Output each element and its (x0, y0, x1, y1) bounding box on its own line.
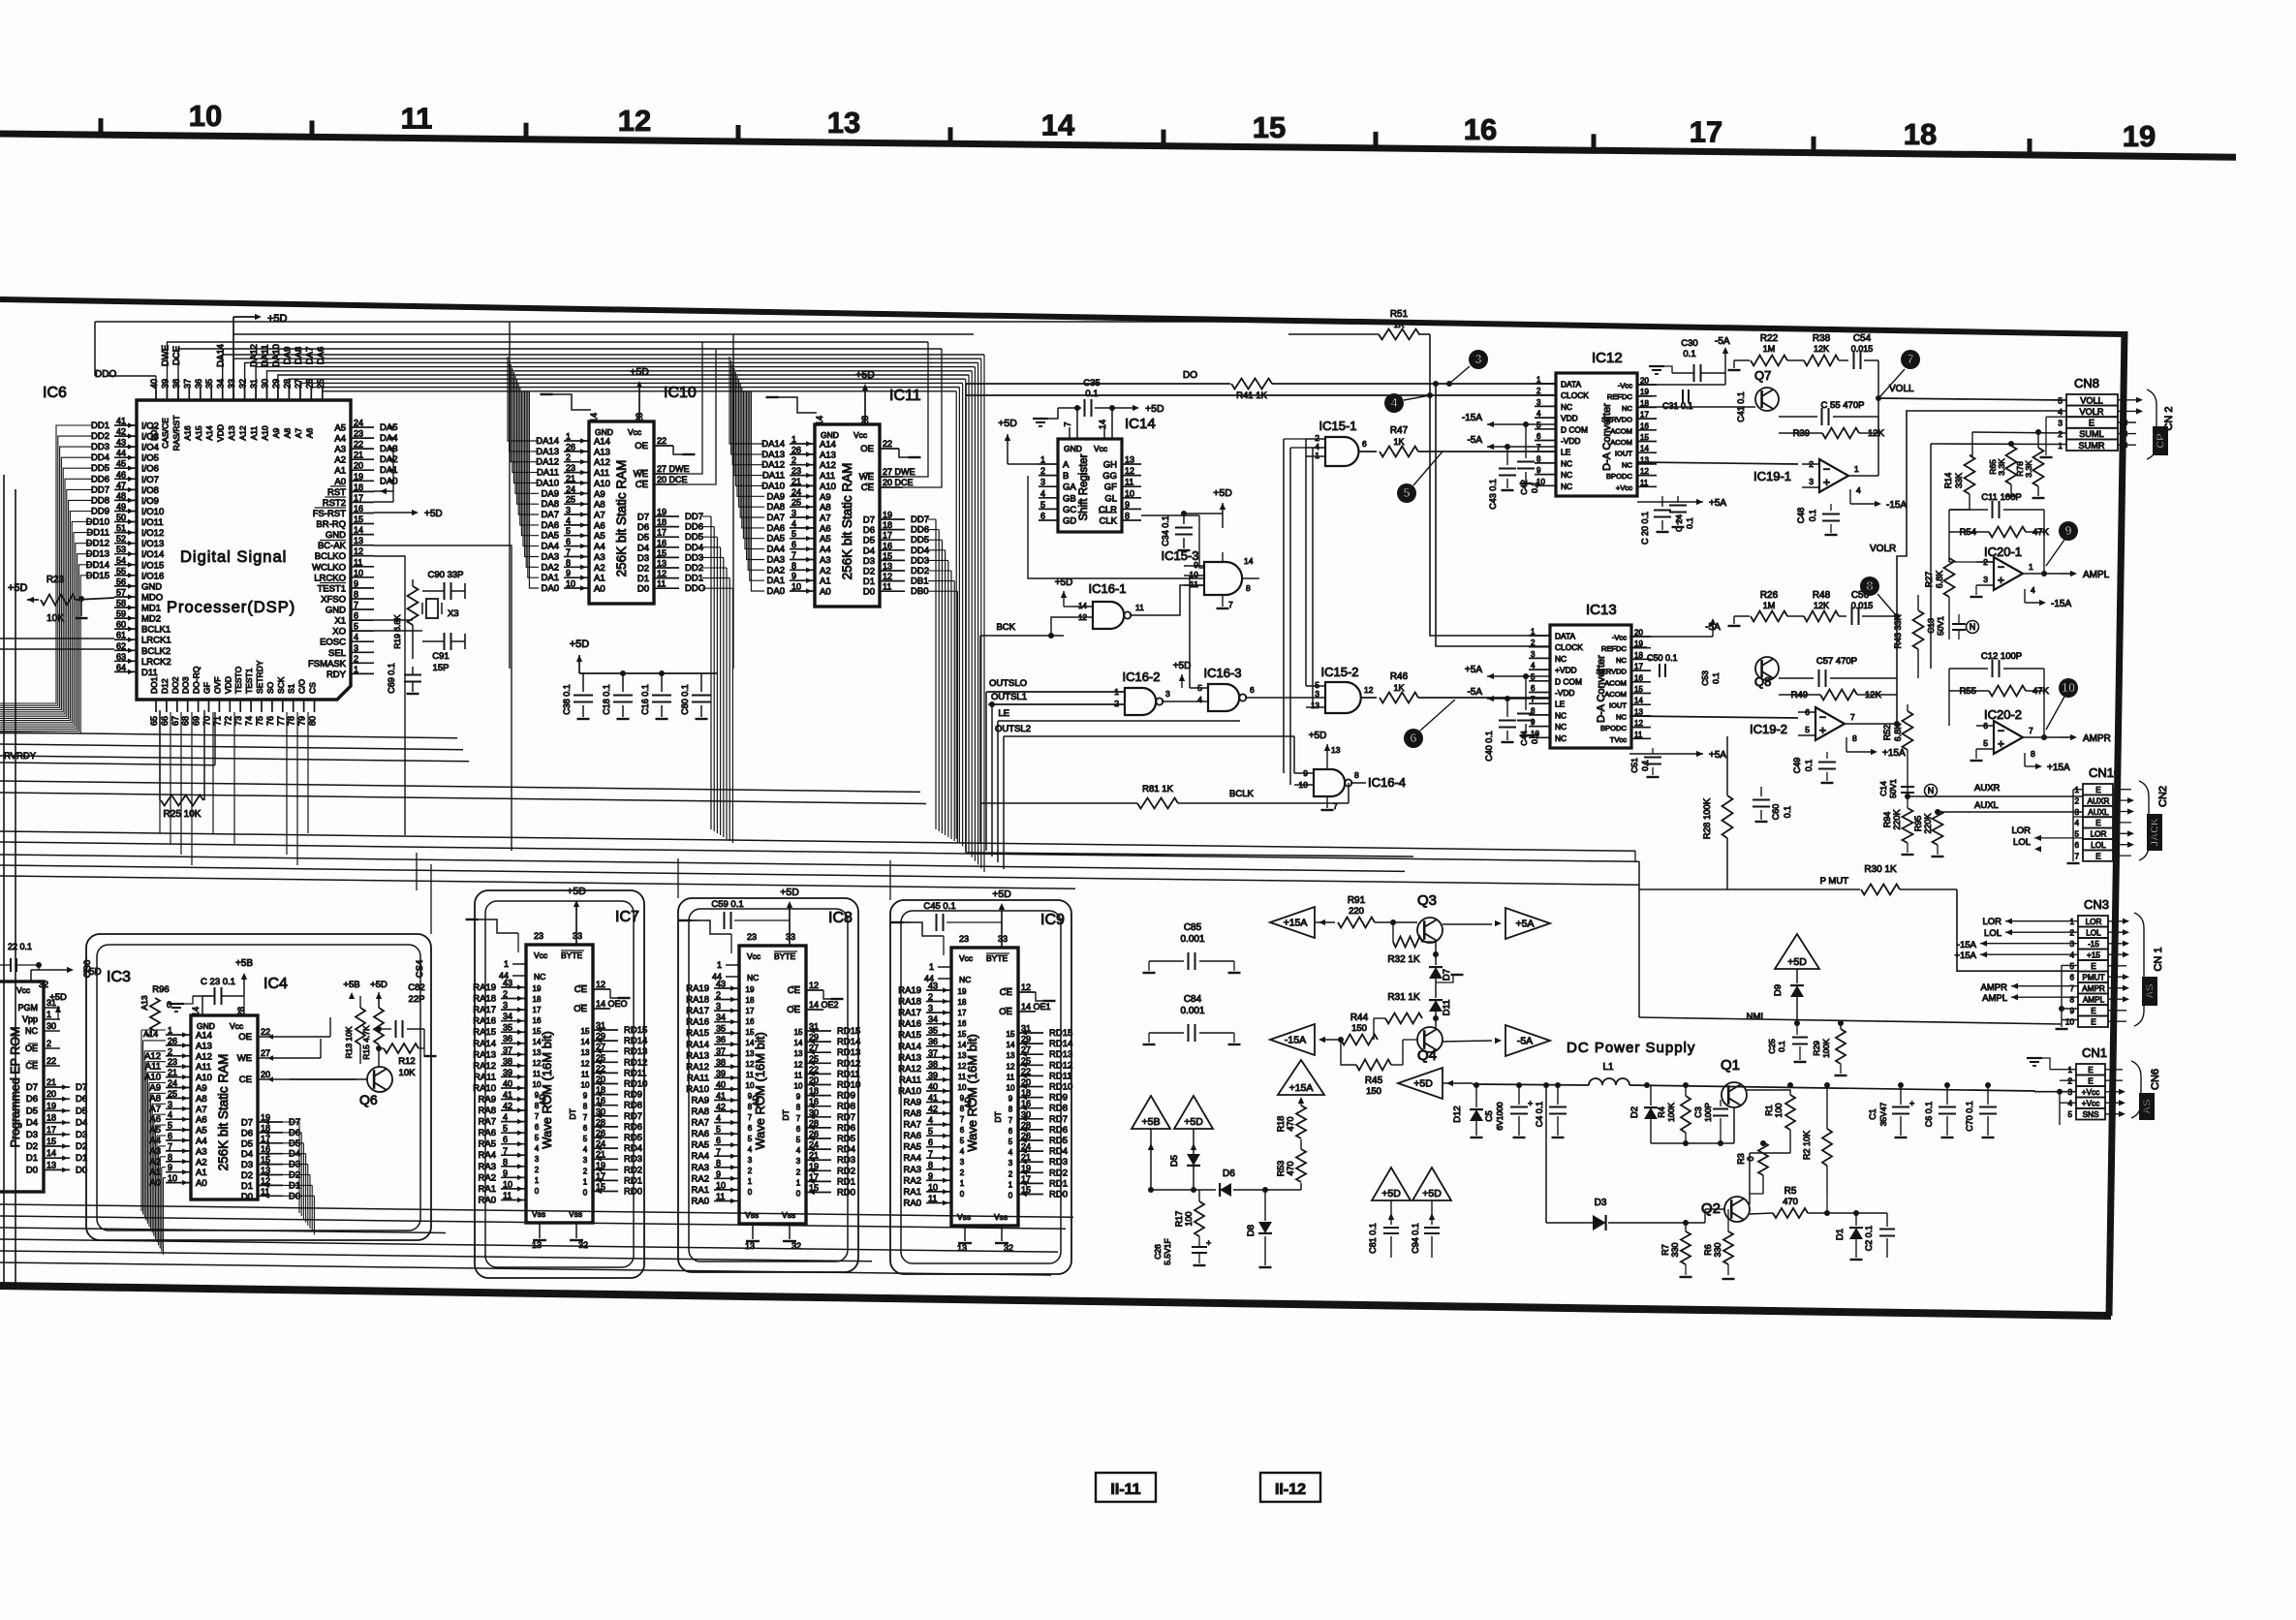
svg-text:4: 4 (1856, 485, 1861, 495)
svg-text:DD5: DD5 (911, 535, 929, 545)
svg-text:1: 1 (2029, 562, 2033, 572)
svg-text:11: 11 (794, 1071, 803, 1079)
svg-text:CE: CE (788, 985, 800, 996)
svg-text:RA3: RA3 (904, 1165, 921, 1175)
svg-text:RA19: RA19 (898, 985, 921, 996)
svg-text:NC: NC (25, 1026, 38, 1036)
svg-text:DD4: DD4 (91, 452, 109, 463)
svg-text:OE: OE (635, 441, 648, 452)
svg-text:D-A Converter: D-A Converter (1596, 655, 1607, 723)
svg-text:RA14: RA14 (686, 1040, 709, 1050)
svg-text:18: 18 (1634, 651, 1643, 660)
svg-text:A14: A14 (196, 1031, 212, 1042)
svg-text:14: 14 (815, 416, 824, 425)
svg-text:D2: D2 (1629, 1106, 1640, 1118)
svg-text:Vcc: Vcc (747, 951, 761, 961)
svg-text:SERVDD: SERVDD (1596, 668, 1627, 676)
svg-text:A14: A14 (820, 440, 836, 451)
svg-text:77: 77 (276, 716, 286, 726)
svg-text:25: 25 (791, 498, 801, 508)
svg-text:BCLKO: BCLKO (315, 551, 346, 562)
svg-text:GND: GND (595, 427, 613, 437)
svg-text:13: 13 (657, 559, 667, 569)
svg-text:DD3: DD3 (685, 552, 703, 563)
svg-text:9: 9 (566, 569, 571, 578)
svg-text:DA14: DA14 (761, 439, 785, 450)
svg-text:DD4: DD4 (911, 545, 929, 556)
svg-text:RD13: RD13 (837, 1047, 860, 1058)
svg-text:VOLL: VOLL (2080, 395, 2103, 405)
svg-text:5: 5 (1536, 421, 1541, 429)
svg-text:15: 15 (794, 1028, 803, 1037)
svg-text:DDO: DDO (95, 369, 116, 380)
svg-text:3: 3 (1315, 689, 1319, 699)
svg-text:RA0: RA0 (904, 1199, 921, 1209)
svg-text:DO: DO (1183, 370, 1197, 381)
svg-text:RA11: RA11 (687, 1073, 709, 1083)
svg-text:2: 2 (2069, 929, 2074, 938)
svg-text:A13: A13 (140, 995, 149, 1010)
svg-text:8: 8 (796, 1104, 801, 1112)
svg-text:C18 0.1: C18 0.1 (602, 684, 611, 715)
svg-text:GF: GF (1104, 483, 1117, 493)
svg-text:C26: C26 (1153, 1244, 1163, 1260)
svg-text:5: 5 (168, 1121, 172, 1131)
svg-text:14: 14 (589, 413, 599, 422)
svg-text:RA2: RA2 (692, 1173, 709, 1184)
svg-text:SERVDO: SERVDO (1601, 416, 1632, 424)
svg-text:3: 3 (1531, 650, 1536, 659)
svg-text:D3: D3 (289, 1160, 300, 1170)
svg-text:4: 4 (1008, 1148, 1013, 1157)
svg-text:BCK: BCK (996, 622, 1015, 633)
svg-text:39: 39 (716, 1069, 726, 1078)
svg-text:AMPR: AMPR (2082, 984, 2105, 993)
svg-text:DA2: DA2 (767, 565, 785, 576)
svg-text:DA3: DA3 (380, 444, 397, 454)
svg-text:1: 1 (796, 1178, 801, 1187)
svg-text:RA12: RA12 (686, 1062, 709, 1073)
svg-text:DD8: DD8 (91, 495, 109, 506)
svg-text:13: 13 (47, 1160, 56, 1169)
svg-text:C3: C3 (1693, 1106, 1703, 1118)
svg-text:22: 22 (261, 1027, 270, 1037)
svg-text:A7: A7 (820, 514, 831, 524)
svg-text:9: 9 (796, 1093, 801, 1102)
svg-text:RA19: RA19 (686, 983, 709, 994)
svg-text:1: 1 (535, 1176, 540, 1185)
svg-text:SUML: SUML (2079, 429, 2104, 439)
svg-text:NC: NC (1555, 710, 1567, 720)
svg-text:34: 34 (928, 1014, 938, 1024)
svg-text:R30 1K: R30 1K (1864, 864, 1897, 875)
svg-text:GD: GD (1063, 516, 1076, 527)
svg-text:24: 24 (168, 1078, 177, 1088)
svg-text:2: 2 (796, 1168, 801, 1176)
svg-text:46: 46 (116, 470, 126, 480)
svg-text:15: 15 (883, 551, 892, 561)
svg-text:D5: D5 (637, 533, 649, 544)
svg-text:R2 10K: R2 10K (1802, 1131, 1812, 1160)
svg-text:C80 0.1: C80 0.1 (680, 684, 690, 715)
svg-text:E: E (2088, 1077, 2094, 1086)
svg-text:7: 7 (716, 1147, 721, 1157)
svg-text:DA0: DA0 (380, 476, 397, 486)
svg-text:Vpp: Vpp (22, 1014, 38, 1024)
svg-text:GA: GA (1063, 483, 1076, 493)
svg-text:D5: D5 (863, 536, 875, 546)
svg-text:27 DWE: 27 DWE (883, 467, 915, 477)
svg-text:D4: D4 (863, 545, 875, 556)
svg-text:470: 470 (1286, 1116, 1295, 1131)
svg-text:NC: NC (1561, 458, 1572, 468)
svg-text:E: E (2095, 786, 2101, 794)
svg-text:LE: LE (998, 708, 1009, 719)
svg-text:1: 1 (168, 1026, 172, 1036)
svg-text:+5D: +5D (630, 366, 649, 378)
svg-text:5: 5 (354, 622, 358, 632)
svg-text:DD4: DD4 (685, 543, 703, 553)
svg-text:D2: D2 (26, 1141, 38, 1152)
svg-text:A9: A9 (149, 1083, 161, 1094)
svg-text:14: 14 (1640, 445, 1649, 453)
svg-text:6.8K: 6.8K (1893, 724, 1903, 742)
svg-text:4: 4 (566, 515, 571, 525)
svg-text:22: 22 (47, 1056, 56, 1066)
svg-text:D3: D3 (1595, 1198, 1607, 1208)
svg-text:3: 3 (535, 1155, 540, 1164)
svg-text:10: 10 (791, 582, 801, 592)
svg-text:AD: AD (963, 1097, 973, 1108)
svg-text:18: 18 (883, 520, 892, 530)
svg-text:1: 1 (960, 1179, 965, 1188)
svg-text:11: 11 (401, 102, 433, 136)
svg-text:TESTO: TESTO (233, 666, 243, 694)
svg-text:12: 12 (794, 1060, 803, 1069)
svg-text:A4: A4 (820, 545, 831, 555)
svg-text:4: 4 (1531, 662, 1536, 670)
svg-text:6: 6 (1362, 439, 1367, 449)
svg-text:27: 27 (261, 1048, 270, 1058)
svg-text:14: 14 (1041, 109, 1075, 142)
svg-text:15: 15 (657, 548, 667, 558)
svg-text:R46: R46 (1390, 671, 1409, 682)
svg-text:256K bit Static RAM: 256K bit Static RAM (614, 460, 629, 577)
svg-text:12: 12 (618, 104, 651, 138)
svg-text:12: 12 (533, 1059, 542, 1068)
svg-text:A12: A12 (594, 457, 610, 468)
svg-text:D6: D6 (1223, 1168, 1235, 1179)
svg-text:41: 41 (716, 1091, 726, 1101)
svg-text:Q6: Q6 (359, 1092, 378, 1107)
svg-text:10K: 10K (399, 1068, 417, 1078)
svg-text:220: 220 (1349, 906, 1364, 917)
svg-text:Wave ROM (16M bit): Wave ROM (16M bit) (965, 1034, 979, 1152)
svg-text:A3: A3 (594, 552, 605, 563)
svg-text:0: 0 (796, 1190, 801, 1199)
svg-text:34: 34 (503, 1012, 512, 1021)
svg-text:C38 0.1: C38 0.1 (562, 684, 572, 715)
svg-text:CN1: CN1 (2082, 1045, 2107, 1060)
svg-text:LOL: LOL (1984, 928, 2001, 939)
svg-text:NC: NC (1561, 470, 1572, 480)
svg-text:RA18: RA18 (686, 995, 709, 1006)
svg-text:40: 40 (149, 379, 159, 389)
svg-text:LE: LE (1561, 448, 1571, 457)
svg-text:Vss: Vss (957, 1212, 971, 1222)
svg-text:7: 7 (796, 1114, 801, 1123)
svg-text:N: N (1928, 786, 1935, 795)
svg-text:C70 0.1: C70 0.1 (1965, 1101, 1974, 1132)
svg-text:RD8: RD8 (1049, 1104, 1068, 1114)
svg-text:IC16-1: IC16-1 (1088, 581, 1126, 596)
svg-text:CN6: CN6 (2150, 1069, 2161, 1090)
svg-text:72: 72 (223, 716, 233, 726)
svg-text:SO: SO (265, 681, 275, 694)
svg-text:2: 2 (791, 455, 796, 465)
svg-text:RA6: RA6 (479, 1128, 496, 1138)
svg-text:DA2: DA2 (380, 454, 397, 465)
svg-text:S1: S1 (287, 683, 296, 694)
svg-text:A0: A0 (334, 477, 346, 487)
svg-text:RA14: RA14 (473, 1039, 496, 1049)
svg-text:RD1: RD1 (1049, 1178, 1068, 1189)
svg-text:10: 10 (566, 579, 575, 589)
svg-text:R48: R48 (1813, 590, 1831, 601)
svg-text:CE: CE (861, 483, 874, 493)
svg-text:+VDD: +VDD (1555, 666, 1577, 675)
svg-text:C/O: C/O (297, 679, 307, 695)
svg-text:VDD: VDD (1561, 414, 1578, 423)
svg-text:+5D: +5D (1413, 1078, 1433, 1090)
svg-text:DA0: DA0 (542, 583, 559, 594)
svg-text:GND: GND (1064, 444, 1082, 453)
svg-text:10: 10 (503, 1179, 512, 1189)
svg-text:54: 54 (116, 555, 126, 565)
svg-text:+5D: +5D (992, 888, 1011, 900)
svg-text:2: 2 (1114, 699, 1119, 708)
svg-text:SCK: SCK (276, 676, 286, 694)
svg-text:4: 4 (2074, 819, 2079, 827)
svg-text:13: 13 (745, 1241, 755, 1251)
svg-text:RA16: RA16 (473, 1016, 496, 1027)
svg-text:DT: DT (993, 1111, 1003, 1122)
svg-text:5: 5 (716, 1125, 721, 1135)
svg-text:E: E (2089, 419, 2094, 428)
svg-text:RA3: RA3 (479, 1162, 496, 1172)
svg-text:RD2: RD2 (1049, 1168, 1068, 1178)
svg-text:BR-RQ: BR-RQ (316, 519, 346, 530)
svg-text:RA17: RA17 (686, 1006, 709, 1016)
svg-text:CE: CE (1000, 987, 1012, 998)
svg-text:0: 0 (535, 1187, 540, 1196)
svg-text:ACOM: ACOM (1610, 438, 1632, 447)
svg-text:8: 8 (716, 1158, 721, 1168)
svg-text:27 DWE: 27 DWE (657, 464, 690, 474)
svg-text:+5D: +5D (570, 639, 590, 650)
svg-text:1M: 1M (1763, 344, 1776, 354)
svg-text:4: 4 (928, 1115, 933, 1125)
svg-text:A11: A11 (145, 1062, 161, 1073)
svg-text:REFDC: REFDC (1607, 392, 1633, 401)
svg-text:SNS: SNS (2083, 1110, 2099, 1119)
svg-text:2: 2 (47, 1039, 51, 1048)
svg-text:RD9: RD9 (837, 1091, 855, 1102)
svg-text:C40 0.1: C40 0.1 (1484, 731, 1494, 762)
svg-text:3: 3 (503, 1001, 508, 1011)
svg-text:14: 14 (1634, 697, 1643, 705)
svg-text:+5D: +5D (370, 980, 388, 990)
svg-text:RA5: RA5 (692, 1140, 709, 1151)
svg-text:A12: A12 (238, 425, 248, 440)
svg-text:Vss: Vss (782, 1210, 795, 1220)
svg-text:N: N (1970, 622, 1976, 632)
svg-text:RST: RST (327, 487, 346, 498)
svg-text:Q7: Q7 (1754, 368, 1771, 383)
svg-text:-15A: -15A (1886, 500, 1907, 511)
svg-text:DA14: DA14 (536, 436, 559, 447)
svg-text:C82: C82 (408, 982, 424, 993)
svg-text:5: 5 (566, 526, 571, 536)
svg-text:RDY: RDY (326, 670, 347, 680)
svg-text:0.1: 0.1 (1640, 760, 1650, 771)
svg-text:R53: R53 (1276, 1161, 1286, 1177)
svg-text:I/O5: I/O5 (141, 453, 159, 464)
svg-text:+5A: +5A (1709, 498, 1726, 509)
svg-text:D3: D3 (637, 553, 649, 564)
svg-text:NC: NC (1555, 733, 1567, 743)
svg-text:3: 3 (1008, 1159, 1013, 1168)
svg-text:DA9: DA9 (767, 491, 785, 502)
svg-text:R38: R38 (1813, 333, 1831, 344)
svg-text:R3: R3 (1736, 1153, 1746, 1165)
svg-text:8: 8 (1246, 583, 1251, 593)
svg-text:23: 23 (791, 466, 801, 476)
svg-text:D2: D2 (637, 564, 649, 575)
svg-text:5: 5 (1008, 1137, 1013, 1146)
svg-text:41: 41 (503, 1090, 512, 1100)
svg-text:28: 28 (282, 379, 292, 389)
svg-text:33: 33 (573, 931, 582, 941)
svg-text:13: 13 (1125, 455, 1134, 465)
svg-text:37: 37 (503, 1045, 512, 1055)
svg-text:12: 12 (746, 1060, 755, 1069)
svg-text:E: E (2095, 819, 2101, 827)
svg-text:RA2: RA2 (479, 1172, 496, 1183)
svg-text:NC: NC (1561, 482, 1572, 491)
svg-text:A10: A10 (820, 482, 836, 492)
svg-text:C6 0.1: C6 0.1 (1924, 1102, 1934, 1128)
svg-text:A1: A1 (820, 576, 831, 587)
svg-text:IC15-2: IC15-2 (1320, 665, 1358, 679)
svg-text:7: 7 (503, 1146, 508, 1156)
svg-text:69: 69 (192, 716, 202, 726)
svg-text:FSMASK: FSMASK (308, 659, 347, 670)
svg-text:256K bit Static RAM: 256K bit Static RAM (216, 1054, 231, 1171)
svg-text:D7: D7 (289, 1117, 300, 1128)
svg-text:C57 470P: C57 470P (1816, 656, 1857, 667)
svg-text:RD11: RD11 (624, 1068, 647, 1078)
svg-text:-5A: -5A (1467, 687, 1482, 698)
svg-text:DD6: DD6 (685, 522, 703, 533)
svg-text:DO3: DO3 (181, 676, 191, 694)
svg-text:14 OE1: 14 OE1 (1021, 1002, 1051, 1012)
svg-text:D12: D12 (160, 678, 170, 694)
svg-text:GG: GG (1102, 471, 1117, 482)
svg-text:D2: D2 (289, 1170, 300, 1181)
svg-text:2: 2 (960, 1168, 965, 1177)
svg-text:28: 28 (635, 413, 644, 422)
svg-text:OVF: OVF (212, 677, 222, 694)
svg-text:12: 12 (1640, 467, 1649, 476)
svg-text:RA2: RA2 (904, 1175, 921, 1186)
svg-text:CN3: CN3 (2084, 897, 2109, 912)
svg-text:DC Power Supply: DC Power Supply (1567, 1040, 1695, 1056)
svg-text:1: 1 (1008, 1180, 1013, 1189)
svg-text:CE: CE (25, 1061, 38, 1071)
svg-text:D-A Converter: D-A Converter (1601, 403, 1613, 471)
svg-text:256K bit Static RAM: 256K bit Static RAM (840, 463, 854, 580)
svg-text:AMPR: AMPR (2083, 733, 2111, 744)
svg-text:IC4: IC4 (264, 976, 288, 992)
svg-text:1: 1 (47, 1010, 51, 1019)
svg-text:1: 1 (2058, 441, 2063, 451)
svg-text:D5: D5 (26, 1106, 38, 1116)
svg-text:20: 20 (261, 1070, 270, 1079)
svg-text:5: 5 (1040, 500, 1045, 510)
svg-text:DD3: DD3 (91, 442, 109, 452)
svg-text:DT: DT (568, 1108, 577, 1119)
svg-text:RA8: RA8 (904, 1108, 921, 1119)
svg-text:24: 24 (791, 487, 801, 497)
svg-text:D12: D12 (1452, 1106, 1463, 1122)
svg-text:58: 58 (116, 599, 126, 608)
svg-text:RA4: RA4 (904, 1153, 921, 1164)
svg-text:C4 0.1: C4 0.1 (1535, 1102, 1544, 1128)
svg-text:8: 8 (503, 1157, 508, 1167)
svg-text:20: 20 (1640, 377, 1649, 386)
svg-text:11: 11 (883, 582, 891, 592)
svg-text:37: 37 (182, 379, 192, 389)
svg-text:R94: R94 (1882, 812, 1892, 828)
svg-text:DWE: DWE (160, 345, 171, 366)
svg-text:DA7: DA7 (767, 513, 785, 523)
svg-text:A8: A8 (820, 503, 831, 514)
svg-text:C12 100P: C12 100P (1981, 651, 2022, 662)
svg-text:NC: NC (747, 973, 759, 982)
svg-text:23: 23 (959, 934, 969, 944)
svg-text:7: 7 (960, 1115, 965, 1124)
svg-text:VOLL: VOLL (1889, 384, 1914, 394)
svg-text:23: 23 (747, 932, 757, 942)
svg-text:+5D: +5D (1309, 731, 1327, 741)
svg-text:C91: C91 (432, 651, 449, 662)
svg-text:8: 8 (1125, 512, 1130, 521)
svg-text:40: 40 (503, 1079, 512, 1089)
svg-text:33: 33 (786, 932, 795, 942)
svg-text:17: 17 (746, 1007, 755, 1015)
svg-text:R4: R4 (1657, 1106, 1666, 1118)
svg-text:RD10: RD10 (837, 1080, 860, 1091)
svg-text:73: 73 (233, 716, 243, 726)
svg-text:10: 10 (581, 1081, 590, 1090)
svg-text:14: 14 (581, 1038, 590, 1046)
svg-text:6: 6 (583, 1124, 588, 1133)
svg-text:DD1: DD1 (685, 574, 703, 584)
svg-text:D2: D2 (863, 567, 875, 577)
svg-text:15: 15 (1634, 685, 1643, 694)
svg-text:GND: GND (326, 530, 346, 541)
